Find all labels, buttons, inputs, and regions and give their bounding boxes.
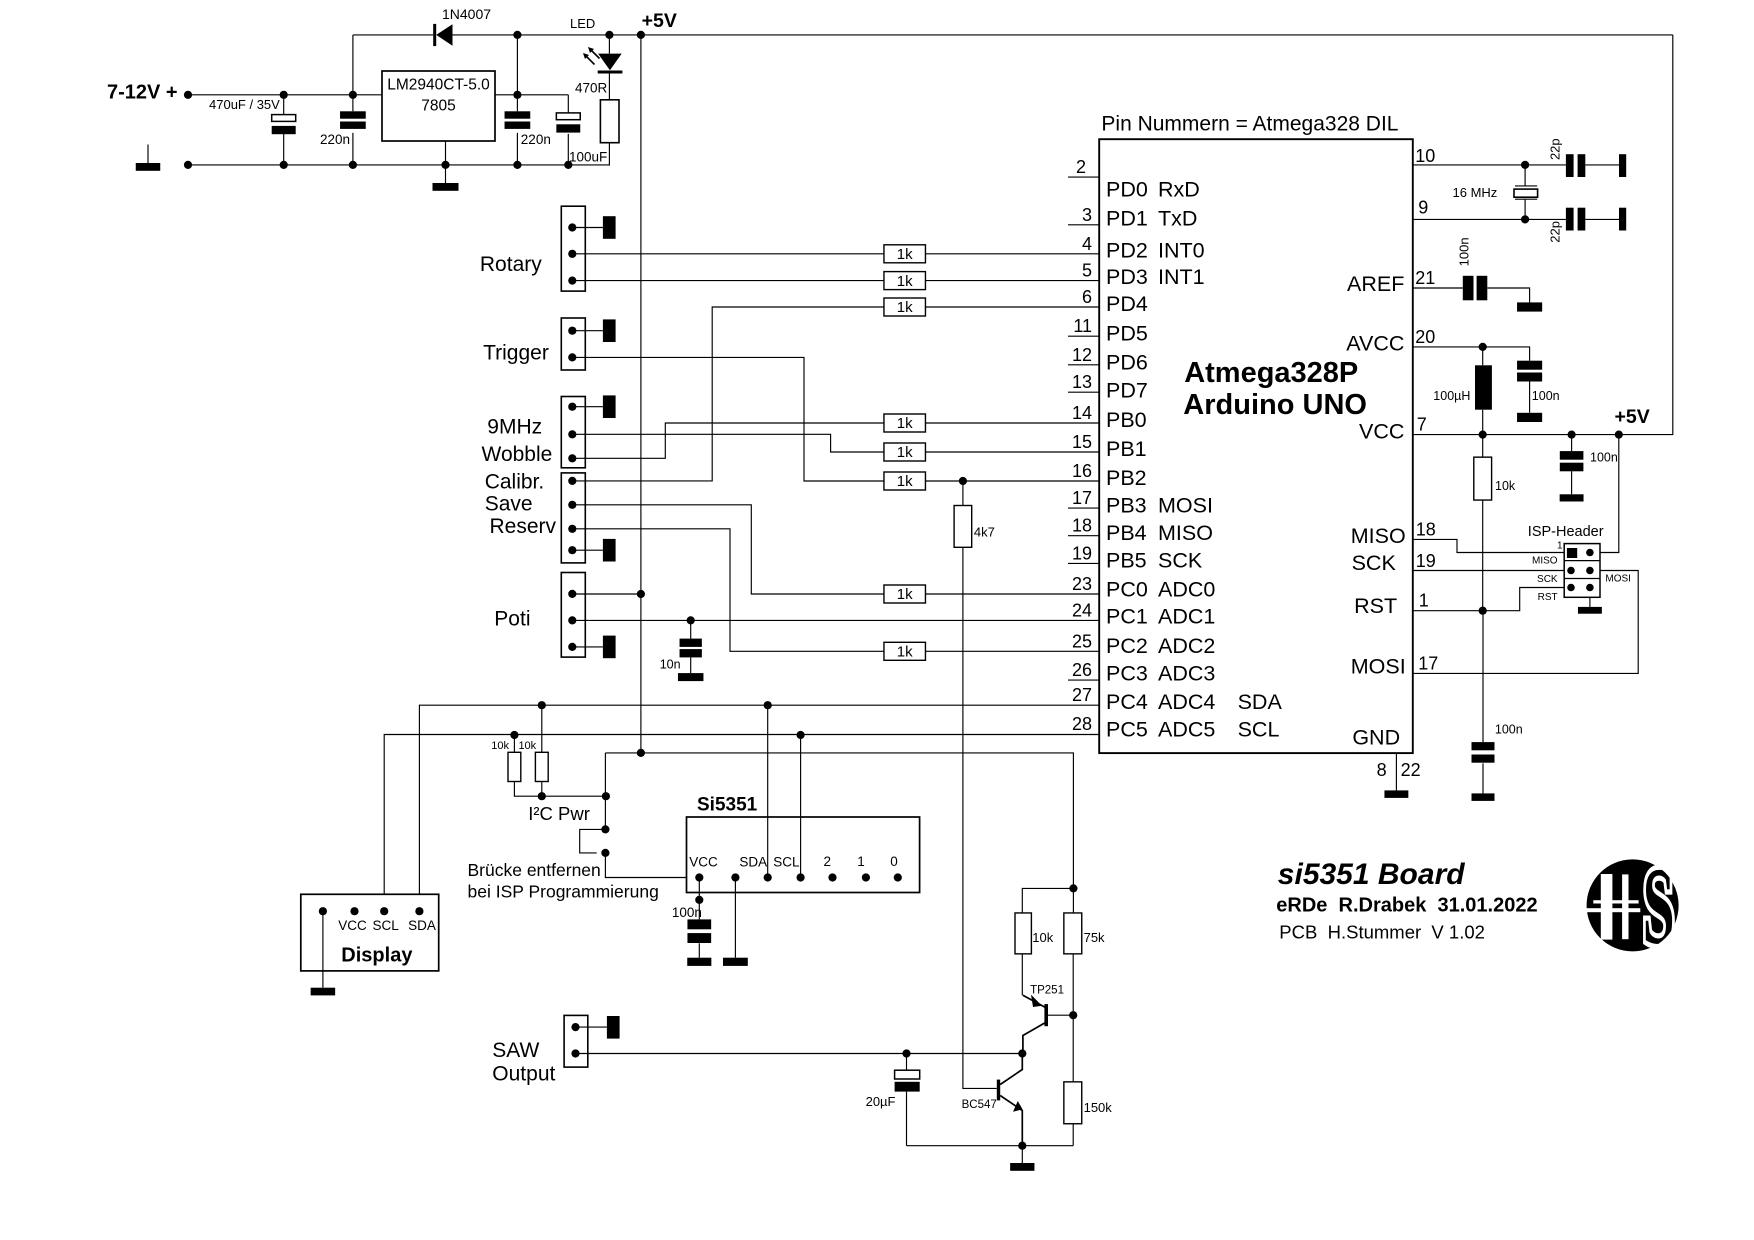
svg-text:PD4: PD4 [1106, 292, 1148, 316]
svg-text:Rotary: Rotary [480, 253, 542, 276]
svg-text:SCL: SCL [1238, 718, 1280, 742]
svg-text:BC547: BC547 [962, 1099, 997, 1111]
svg-text:220n: 220n [521, 132, 551, 147]
svg-text:VCC: VCC [1359, 419, 1404, 443]
svg-text:eRDe R.Drabek 31.01.2022: eRDe R.Drabek 31.01.2022 [1276, 895, 1537, 917]
svg-text:150k: 150k [1084, 1100, 1113, 1115]
svg-text:10k: 10k [491, 740, 509, 752]
svg-text:23: 23 [1072, 574, 1092, 594]
svg-text:7: 7 [1417, 415, 1427, 435]
svg-text:PD0: PD0 [1106, 178, 1148, 202]
svg-text:SCK: SCK [1537, 574, 1558, 585]
svg-text:MISO: MISO [1158, 521, 1213, 545]
svg-text:100n: 100n [1495, 723, 1523, 737]
svg-text:TP251: TP251 [1030, 985, 1064, 997]
svg-text:Output: Output [492, 1062, 555, 1085]
svg-text:9: 9 [1418, 198, 1428, 218]
svg-text:PB3: PB3 [1106, 494, 1147, 518]
svg-text:Wobble: Wobble [482, 443, 553, 466]
svg-text:470uF / 35V: 470uF / 35V [209, 97, 280, 112]
svg-text:PB2: PB2 [1106, 466, 1147, 490]
svg-text:470R: 470R [575, 80, 608, 95]
svg-text:SDA: SDA [408, 918, 436, 933]
svg-text:AVCC: AVCC [1346, 332, 1404, 356]
svg-text:2: 2 [824, 854, 832, 869]
svg-text:PB5: PB5 [1106, 549, 1147, 573]
svg-text:10k: 10k [1495, 479, 1516, 493]
svg-text:27: 27 [1072, 685, 1092, 705]
svg-text:7-12V +: 7-12V + [107, 81, 178, 103]
svg-text:MOSI: MOSI [1351, 655, 1406, 679]
svg-text:PB0: PB0 [1106, 408, 1147, 432]
svg-text:Pin Nummern = Atmega328 DIL: Pin Nummern = Atmega328 DIL [1101, 112, 1398, 135]
svg-text:100n: 100n [672, 905, 702, 920]
svg-text:I²C Pwr: I²C Pwr [528, 803, 590, 824]
svg-text:ADC1: ADC1 [1158, 605, 1215, 629]
svg-text:MOSI: MOSI [1158, 494, 1213, 518]
svg-text:TxD: TxD [1158, 207, 1197, 231]
svg-text:16: 16 [1072, 461, 1092, 481]
svg-text:220n: 220n [320, 132, 350, 147]
svg-text:14: 14 [1072, 403, 1092, 423]
svg-text:1: 1 [1419, 591, 1429, 611]
svg-text:1k: 1k [897, 299, 913, 316]
svg-text:100n: 100n [1590, 451, 1618, 465]
svg-text:bei ISP Programmierung: bei ISP Programmierung [468, 881, 659, 901]
svg-text:9MHz: 9MHz [487, 415, 542, 438]
svg-text:Trigger: Trigger [483, 342, 549, 365]
svg-text:SDA: SDA [1238, 690, 1283, 714]
svg-text:18: 18 [1072, 516, 1092, 536]
svg-text:25: 25 [1072, 631, 1092, 651]
svg-text:Reserv: Reserv [490, 515, 557, 538]
svg-text:ADC4: ADC4 [1158, 690, 1215, 714]
svg-text:12: 12 [1072, 345, 1092, 365]
svg-text:0: 0 [890, 854, 898, 869]
svg-text:ADC2: ADC2 [1158, 634, 1215, 658]
svg-text:17: 17 [1072, 488, 1092, 508]
svg-text:8: 8 [1377, 760, 1387, 780]
svg-text:22: 22 [1401, 760, 1421, 780]
svg-text:MOSI: MOSI [1605, 574, 1631, 585]
svg-text:PD2: PD2 [1106, 239, 1148, 263]
svg-text:Display: Display [341, 945, 413, 967]
svg-text:Calibr.: Calibr. [485, 470, 545, 493]
svg-text:100uF: 100uF [569, 149, 607, 164]
svg-text:10k: 10k [1032, 930, 1053, 945]
svg-text:4k7: 4k7 [974, 525, 995, 540]
svg-text:PD3: PD3 [1106, 265, 1148, 289]
svg-text:PC5: PC5 [1106, 718, 1148, 742]
svg-text:7805: 7805 [421, 98, 455, 115]
svg-text:22p: 22p [1547, 221, 1562, 243]
svg-text:+5V: +5V [1615, 406, 1650, 428]
svg-text:1k: 1k [897, 246, 913, 263]
svg-text:Poti: Poti [494, 608, 530, 631]
svg-text:10: 10 [1415, 146, 1435, 166]
svg-text:20: 20 [1415, 327, 1435, 347]
svg-text:RST: RST [1354, 594, 1397, 618]
svg-text:100µH: 100µH [1433, 389, 1470, 403]
svg-text:26: 26 [1072, 660, 1092, 680]
svg-text:si5351 Board: si5351 Board [1278, 858, 1465, 891]
svg-text:VCC: VCC [689, 855, 718, 870]
svg-text:28: 28 [1072, 714, 1092, 734]
svg-text:Brücke entfernen: Brücke entfernen [468, 860, 601, 880]
svg-text:PC4: PC4 [1106, 690, 1148, 714]
svg-text:SCK: SCK [1158, 549, 1203, 573]
svg-text:1k: 1k [897, 273, 913, 290]
svg-text:5: 5 [1082, 261, 1092, 281]
svg-text:1k: 1k [897, 644, 913, 661]
svg-text:10k: 10k [518, 740, 536, 752]
svg-text:PB1: PB1 [1106, 437, 1147, 461]
svg-text:100n: 100n [1457, 237, 1472, 266]
svg-text:SCK: SCK [1352, 551, 1397, 575]
svg-text:PB4: PB4 [1106, 521, 1147, 545]
svg-text:11: 11 [1073, 316, 1092, 336]
svg-text:17: 17 [1418, 653, 1438, 673]
svg-text:24: 24 [1072, 600, 1092, 620]
svg-text:19: 19 [1416, 551, 1436, 571]
svg-text:1k: 1k [897, 415, 913, 432]
svg-text:1k: 1k [897, 586, 913, 603]
svg-text:Si5351: Si5351 [697, 795, 758, 816]
svg-text:19: 19 [1072, 543, 1092, 563]
svg-text:20µF: 20µF [866, 1094, 896, 1109]
svg-text:22p: 22p [1547, 138, 1562, 160]
svg-text:LM2940CT-5.0: LM2940CT-5.0 [387, 77, 490, 94]
svg-text:SCL: SCL [773, 855, 800, 870]
svg-text:VCC: VCC [338, 918, 367, 933]
svg-text:PD5: PD5 [1106, 322, 1148, 346]
svg-text:PC2: PC2 [1106, 634, 1148, 658]
svg-text:PC1: PC1 [1106, 605, 1148, 629]
svg-text:ADC0: ADC0 [1158, 578, 1215, 602]
svg-text:PD6: PD6 [1106, 351, 1148, 375]
svg-text:75k: 75k [1084, 930, 1105, 945]
svg-text:ADC5: ADC5 [1158, 718, 1215, 742]
svg-text:SCL: SCL [373, 918, 400, 933]
svg-text:MISO: MISO [1351, 524, 1406, 548]
svg-text:SAW: SAW [492, 1039, 539, 1062]
svg-text:INT1: INT1 [1158, 265, 1205, 289]
svg-text:GND: GND [1352, 725, 1400, 749]
svg-text:PC3: PC3 [1106, 662, 1148, 686]
svg-text:ADC3: ADC3 [1158, 662, 1215, 686]
svg-text:SDA: SDA [739, 855, 767, 870]
svg-text:21: 21 [1415, 268, 1435, 288]
svg-text:10n: 10n [660, 658, 681, 672]
svg-text:1: 1 [1557, 541, 1563, 552]
svg-text:PCB H.Stummer V 1.02: PCB H.Stummer V 1.02 [1279, 922, 1485, 943]
svg-text:PD7: PD7 [1106, 379, 1148, 403]
svg-text:1k: 1k [897, 444, 913, 461]
svg-text:1N4007: 1N4007 [442, 6, 491, 22]
svg-text:18: 18 [1416, 519, 1436, 539]
svg-text:ISP-Header: ISP-Header [1528, 524, 1604, 540]
svg-text:13: 13 [1072, 372, 1092, 392]
svg-text:RST: RST [1538, 592, 1558, 603]
svg-text:16 MHz: 16 MHz [1453, 185, 1498, 200]
svg-text:+5V: +5V [642, 10, 677, 32]
svg-text:1k: 1k [897, 473, 913, 490]
svg-text:100n: 100n [1532, 389, 1560, 403]
svg-text:INT0: INT0 [1158, 239, 1205, 263]
svg-text:LED: LED [570, 16, 595, 31]
svg-text:PD1: PD1 [1106, 207, 1148, 231]
svg-text:4: 4 [1082, 234, 1092, 254]
svg-text:MISO: MISO [1532, 555, 1558, 566]
svg-text:RxD: RxD [1158, 178, 1200, 202]
svg-text:PC0: PC0 [1106, 578, 1148, 602]
svg-text:Atmega328P: Atmega328P [1184, 357, 1358, 389]
svg-text:Arduino UNO: Arduino UNO [1183, 389, 1367, 421]
svg-text:6: 6 [1082, 287, 1092, 307]
svg-text:AREF: AREF [1347, 272, 1404, 296]
svg-text:3: 3 [1082, 205, 1092, 225]
svg-text:2: 2 [1076, 157, 1086, 177]
svg-text:Save: Save [485, 493, 533, 516]
svg-text:15: 15 [1072, 432, 1092, 452]
svg-text:1: 1 [857, 854, 865, 869]
